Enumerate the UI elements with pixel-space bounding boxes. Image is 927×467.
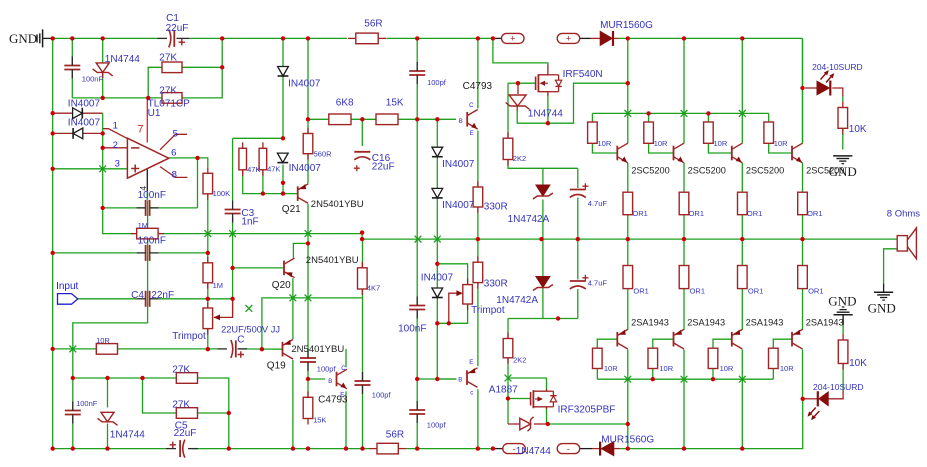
- wire zener D7 hang: [542, 168, 544, 185]
- label 15K: [386, 97, 404, 108]
- wire trimpot2 wiper: [449, 293, 459, 323]
- wire 2K2 top link: [507, 83, 509, 138]
- wire cap ladder C7: [416, 38, 418, 119]
- label 1M R5: [213, 281, 223, 290]
- wire 100nF C2 branch: [71, 38, 73, 98]
- zener diode D1 1N4744: [93, 63, 113, 78]
- label OR1 npn 4: [807, 209, 822, 218]
- svg-text:2N5401YBU: 2N5401YBU: [291, 344, 344, 355]
- svg-text:2SA1943: 2SA1943: [631, 318, 669, 328]
- resistor OR1 npn 2: [679, 192, 689, 215]
- label 27K R17: [172, 399, 190, 410]
- label 6K8: [336, 97, 354, 108]
- wire 27K R17 link: [143, 378, 177, 413]
- label 1N4744 D11: [110, 429, 145, 440]
- label 2SC5200 2: [688, 165, 726, 175]
- connector - left: [503, 444, 526, 454]
- transistor 2SC5200 1: [617, 143, 628, 163]
- wire Q21 collector col: [307, 204, 309, 298]
- svg-text:22uF: 22uF: [166, 23, 189, 34]
- svg-text:10R: 10R: [604, 364, 618, 373]
- resistor 10R pnp 3: [708, 348, 718, 368]
- capacitor C2 100nF: [64, 57, 80, 79]
- svg-text:C4: C4: [131, 290, 144, 301]
- diode D3 IN4007: [73, 108, 83, 119]
- label 2SA1943 1: [631, 318, 669, 328]
- wire gate feed from V+ rail: [493, 38, 548, 64]
- wire A1887 collector: [477, 389, 479, 448]
- wire pnp base lead 1: [597, 339, 617, 348]
- svg-text:IN4007: IN4007: [288, 78, 321, 89]
- pin 3: [115, 158, 120, 169]
- svg-text:1N4742A: 1N4742A: [496, 295, 538, 306]
- svg-text:27K: 27K: [159, 53, 177, 64]
- label 100pf Q19cap: [317, 365, 337, 374]
- label 15K lower: [313, 415, 326, 424]
- label 1M R4: [138, 221, 148, 230]
- led D5 204-10SURD: [805, 70, 834, 95]
- wire pin2 lead: [103, 147, 128, 149]
- zener D11 1N4744: [98, 412, 118, 425]
- label 10R pnp 2: [659, 364, 673, 373]
- wire 100pf C14 col: [416, 239, 418, 449]
- ground GND top-left: [37, 29, 53, 47]
- svg-text:10R: 10R: [714, 139, 728, 148]
- capacitor C6 100nF: [137, 245, 159, 261]
- svg-text:56R: 56R: [364, 18, 382, 29]
- pin C upper: [469, 103, 474, 109]
- label 1N4742A D7: [508, 214, 550, 225]
- label 10R input: [96, 336, 110, 345]
- svg-text:OR1: OR1: [808, 286, 823, 295]
- wire Q19 cap branch: [307, 356, 309, 364]
- transistor 2SA1943 1: [617, 329, 628, 349]
- wire OR1 to bus 3: [741, 215, 743, 239]
- resistor 2K2 upper: [503, 132, 513, 165]
- transistor A1887: [467, 368, 478, 388]
- wire diode D3 row: [53, 112, 103, 114]
- resistor R3 27K: [162, 93, 182, 104]
- label OR1 pnp 3: [748, 286, 763, 295]
- wire cap ladder mid: [416, 119, 418, 238]
- wire pin4 descender: [73, 200, 148, 349]
- svg-text:100nF: 100nF: [138, 190, 166, 201]
- op-amp U1 TL071CP: [127, 138, 168, 178]
- svg-text:10R: 10R: [720, 364, 734, 373]
- label Q20: [272, 280, 291, 291]
- label 4.7uF C8: [588, 199, 608, 208]
- svg-text:B: B: [328, 379, 332, 385]
- label OR1 npn 3: [747, 209, 762, 218]
- speaker 8 Ohms: [897, 228, 916, 259]
- svg-text:2K2: 2K2: [513, 154, 526, 163]
- svg-text:27K: 27K: [172, 364, 190, 375]
- label U1: [148, 108, 161, 119]
- svg-text:10R: 10R: [774, 139, 788, 148]
- wire input line: [78, 298, 137, 300]
- resistor OR1 npn 3: [738, 192, 748, 215]
- label 10R pnp 4: [780, 364, 794, 373]
- wire 100nF C6 row: [53, 252, 208, 254]
- wire pnp base rail: [597, 378, 773, 380]
- resistor 10R npn 3: [704, 122, 714, 143]
- zener D7 1N4742A: [533, 185, 553, 199]
- svg-text:OR1: OR1: [632, 209, 647, 218]
- transistor 2SA1943 2: [674, 329, 685, 349]
- wire 10R to base 4: [769, 143, 792, 153]
- label Q21: [282, 204, 301, 215]
- label 27K R2: [159, 53, 177, 64]
- resistor 27K R17: [176, 408, 197, 419]
- label 22UF/500V JJ: [221, 325, 280, 335]
- svg-text:2SC5200: 2SC5200: [746, 165, 784, 175]
- resistor 10R npn 2: [644, 122, 654, 143]
- pin B A1887: [458, 378, 462, 384]
- label 56R top: [364, 18, 382, 29]
- wire 27K R17 right: [198, 412, 229, 414]
- wire 10R bottom lead pnp 4: [772, 369, 774, 380]
- wire Q19 collector drop: [292, 360, 294, 449]
- capacitor 100pf C14: [409, 401, 425, 423]
- svg-text:100nF: 100nF: [138, 236, 166, 247]
- diode D4 IN4007: [73, 128, 83, 139]
- ground GND right lower: [834, 307, 853, 325]
- wire 2SA1 col to rail: [627, 424, 629, 449]
- label 100nF C2: [82, 74, 104, 83]
- svg-text:5: 5: [173, 128, 178, 139]
- wire 4K7 return: [262, 298, 362, 349]
- svg-text:1N4744: 1N4744: [528, 108, 563, 119]
- wire 10R to base 2: [649, 143, 674, 153]
- svg-text:1N4742A: 1N4742A: [508, 214, 550, 225]
- wire OR1 to bus 1: [627, 215, 629, 239]
- label 10K upper: [849, 124, 867, 135]
- wire trimpot2 bottom: [437, 304, 467, 323]
- zener D13 1N4742A: [533, 277, 553, 291]
- label 100nF C11: [76, 399, 98, 408]
- pin E lower: [340, 393, 344, 399]
- diode MUR1560G top: [496, 31, 619, 46]
- wire 10R to base 1: [592, 143, 617, 153]
- svg-text:GND: GND: [868, 301, 896, 316]
- svg-text:10R: 10R: [96, 336, 110, 345]
- wire npn base rail: [592, 112, 768, 114]
- label 56R bottom: [386, 429, 404, 440]
- wire 560R drop: [307, 119, 309, 133]
- resistor 10R input: [96, 344, 117, 355]
- wire OR1 to bus 2: [683, 215, 685, 239]
- transistor 2SC5200 2: [674, 143, 685, 163]
- label 100nF C6: [138, 236, 166, 247]
- svg-text:1M: 1M: [138, 221, 148, 230]
- label 8 Ohms: [887, 209, 921, 220]
- label 2SA1943 3: [746, 318, 784, 328]
- wire bottom rail: [53, 399, 803, 449]
- capacitor 100pf Q19: [300, 349, 316, 371]
- wire gate2 zener drop: [507, 399, 509, 425]
- label OR1 pnp 4: [808, 286, 823, 295]
- label 27K R16: [172, 364, 190, 375]
- svg-text:2N5401YBU: 2N5401YBU: [311, 199, 364, 210]
- svg-text:C: C: [469, 103, 474, 109]
- svg-text:6: 6: [171, 147, 176, 158]
- svg-text:22UF/500V JJ: 22UF/500V JJ: [221, 325, 280, 335]
- wire IN4007 pair lower: [436, 198, 438, 264]
- label C3: [241, 208, 254, 219]
- label IN4007 D3: [68, 98, 101, 109]
- op-amp pin1 stub: [103, 129, 127, 139]
- wire bus to OR1 pnp 2: [683, 239, 685, 265]
- label 2N5401YBU Q19: [291, 344, 344, 355]
- resistor 6K8: [329, 114, 351, 125]
- connector + right: [557, 33, 580, 43]
- label 22uF C16: [372, 162, 395, 173]
- diode D10 IN4007: [432, 288, 443, 298]
- wire npn emitter col 2: [683, 163, 685, 192]
- wire gate2 row: [508, 398, 530, 400]
- wire left vertical bus: [52, 38, 54, 448]
- wire bottom feedback rail: [53, 348, 218, 350]
- label IN4007 D4: [68, 117, 101, 128]
- wire 6K8 rail: [308, 118, 456, 120]
- wire C3 to input node: [232, 218, 234, 318]
- wire OR1 to bus 4: [802, 215, 804, 239]
- svg-text:4.7uF: 4.7uF: [588, 278, 608, 287]
- resistor 10K lower: [838, 334, 848, 370]
- svg-text:22uF: 22uF: [372, 162, 395, 173]
- wire pnp base lead 4: [773, 339, 792, 348]
- svg-text:560R: 560R: [314, 150, 333, 159]
- wire Q21 col to cap: [307, 298, 309, 356]
- svg-text:8 Ohms: 8 Ohms: [887, 209, 921, 220]
- wire 10R to base 3: [708, 143, 731, 153]
- label 4.7uF C9: [588, 278, 608, 287]
- resistor 15K lower: [303, 391, 313, 424]
- resistor 10R npn 1: [588, 122, 598, 143]
- label 4K7: [367, 283, 380, 292]
- svg-text:100nF: 100nF: [398, 324, 426, 335]
- wire C16 branch: [361, 119, 363, 146]
- led D14 204-10SURD: [808, 391, 829, 420]
- svg-text:OR1: OR1: [633, 286, 648, 295]
- svg-text:E: E: [469, 360, 473, 366]
- wire node A horizontal: [72, 97, 162, 99]
- input connector: [58, 294, 78, 305]
- wire 2K2 bottom bend: [508, 160, 578, 169]
- diode D8 IN4007: [432, 147, 443, 157]
- capacitor 100pf C13: [355, 372, 371, 394]
- svg-text:204-10SURD: 204-10SURD: [813, 382, 864, 392]
- wire npn collector col 1: [627, 83, 629, 143]
- wire 10R bottom lead pnp 1: [596, 369, 598, 380]
- label 100nF C5: [138, 190, 166, 201]
- wire pin3 feed: [53, 168, 128, 170]
- svg-text:1N4744: 1N4744: [105, 54, 140, 65]
- svg-text:10R: 10R: [654, 139, 668, 148]
- svg-text:2SC5200: 2SC5200: [631, 165, 669, 175]
- resistor 56R top: [348, 33, 386, 44]
- wire LED2 lead: [803, 398, 818, 400]
- svg-text:GND: GND: [9, 31, 37, 46]
- wire speaker gnd: [884, 249, 898, 283]
- label 10R npn 4: [774, 139, 788, 148]
- label OR1 npn 1: [632, 209, 647, 218]
- resistor 15K: [376, 114, 398, 125]
- svg-text:100nF: 100nF: [76, 399, 98, 408]
- svg-text:100K: 100K: [213, 189, 231, 198]
- label 10K lower: [849, 358, 867, 369]
- label 10R pnp 1: [604, 364, 618, 373]
- wire 10K2 to LED2: [828, 364, 843, 399]
- wire input to divider: [159, 298, 233, 300]
- transistor 2SA1943 4: [792, 329, 803, 349]
- wire D2 to 47K rail: [282, 76, 284, 138]
- transistor Q20 2N5401YBU: [284, 258, 295, 278]
- svg-text:100pf: 100pf: [427, 420, 447, 429]
- label 47K left: [247, 165, 260, 174]
- svg-text:27K: 27K: [172, 399, 190, 410]
- wire 27K feedback link: [148, 67, 162, 98]
- svg-text:3: 3: [115, 158, 120, 169]
- label IRF540N: [563, 69, 603, 80]
- ground GND speaker: [874, 292, 893, 300]
- label 100pf C7: [427, 78, 447, 87]
- label GND speaker: [868, 301, 896, 316]
- wire npn collector col 4: [802, 38, 804, 143]
- svg-text:IRF3205PBF: IRF3205PBF: [558, 404, 616, 415]
- resistor 560R: [303, 128, 313, 160]
- wire zener D11 branch: [107, 378, 109, 408]
- label 204-10SURD bottom: [813, 382, 864, 392]
- wire Q21 emitter: [307, 154, 309, 184]
- label 22uF C10: [174, 428, 197, 439]
- label 1nF: [241, 217, 258, 228]
- svg-text:Trimpot: Trimpot: [172, 331, 206, 342]
- label 1N4744 D1: [105, 54, 140, 65]
- transistor Q19 2N5401YBU: [283, 339, 294, 359]
- wire npn emitter col 3: [741, 163, 743, 192]
- svg-text:2SA1943: 2SA1943: [746, 318, 784, 328]
- wire 100K column: [207, 194, 209, 349]
- svg-text:IRF540N: IRF540N: [563, 69, 603, 80]
- svg-text:C: C: [237, 335, 244, 346]
- capacitor C4 22nF: [137, 291, 159, 307]
- capacitor C 22UF/500V: [218, 340, 248, 358]
- resistor OR1 pnp 3: [738, 266, 748, 289]
- wire mosfet2 source drop: [546, 407, 548, 424]
- label IRF3205PBF: [558, 404, 616, 415]
- svg-text:B: B: [459, 119, 463, 125]
- svg-text:A1887: A1887: [489, 384, 518, 395]
- wire Q20 collector link: [293, 243, 308, 258]
- label C1 value: [166, 23, 189, 34]
- resistor 10R pnp 2: [648, 348, 658, 368]
- pin c lower: [341, 366, 346, 372]
- label 1N4744 D6: [528, 108, 563, 119]
- svg-text:E: E: [470, 131, 474, 137]
- label 27K R3: [159, 85, 177, 96]
- pin 2: [113, 140, 118, 151]
- wire OR1 to emitter pnp 4: [802, 289, 804, 330]
- svg-text:100nF: 100nF: [82, 74, 104, 83]
- svg-text:2SC5200: 2SC5200: [688, 165, 726, 175]
- svg-text:2N5401YBU: 2N5401YBU: [306, 255, 359, 266]
- label 204-10SURD top: [812, 62, 863, 72]
- wire 2K2b to X: [507, 358, 509, 378]
- svg-text:10K: 10K: [849, 124, 867, 135]
- wire pnp collector col 1: [627, 350, 629, 425]
- diode D2a IN4007: [278, 67, 289, 77]
- wire pnp collector col 2: [683, 350, 685, 449]
- wire LED1 down: [802, 88, 804, 143]
- label 2K2 upper: [513, 154, 526, 163]
- wire speaker gnd black: [883, 283, 885, 292]
- transistor 2SA1943 3: [732, 329, 743, 349]
- svg-text:IN4007: IN4007: [68, 98, 101, 109]
- pin E A1887: [469, 360, 473, 366]
- label 10R npn 2: [654, 139, 668, 148]
- label C cap: [237, 335, 244, 346]
- wire 10R top lead 3: [707, 113, 709, 122]
- wire mosfet2 drain link: [508, 378, 547, 390]
- transistor 2SC5200 3: [732, 143, 743, 163]
- resistor 27K R16: [176, 373, 197, 384]
- svg-text:15K: 15K: [386, 97, 404, 108]
- pin E upper: [470, 131, 474, 137]
- label C5 cap: [175, 420, 188, 431]
- transistor C4793 upper: [467, 110, 478, 130]
- svg-text:IN4007: IN4007: [68, 117, 101, 128]
- wire bus to OR1 pnp 3: [741, 239, 743, 265]
- wire bus to OR1 pnp 4: [802, 239, 804, 265]
- wire Q20 base: [233, 267, 284, 269]
- wire OR1 to emitter pnp 2: [683, 289, 685, 330]
- resistor OR1 pnp 1: [623, 266, 633, 289]
- svg-text:OR1: OR1: [689, 209, 704, 218]
- wire npn collector col 3: [741, 38, 743, 143]
- label GND top-left: [9, 31, 37, 46]
- wire IN4007 pair branch: [436, 119, 438, 147]
- resistor 10R npn 4: [764, 122, 774, 143]
- pin 6: [171, 147, 176, 158]
- capacitor C10 22uF: [166, 440, 198, 458]
- resistor 1M vertical: [203, 257, 213, 289]
- capacitor C9 4.7uF: [570, 275, 589, 289]
- svg-text:MUR1560G: MUR1560G: [601, 434, 654, 445]
- wire 330R chain: [477, 131, 479, 367]
- label IN4007 D8: [442, 159, 475, 170]
- resistor 330R lower: [473, 256, 483, 288]
- pin B upper: [459, 119, 463, 125]
- wire pin6 up link: [197, 158, 199, 208]
- wire IN4007 D10 col: [436, 264, 438, 379]
- label C16: [372, 153, 391, 164]
- svg-text:OR1: OR1: [747, 209, 762, 218]
- label MUR1560G bottom: [601, 434, 654, 445]
- wire source2 row: [548, 423, 628, 425]
- wire pnp base lead 3: [713, 339, 732, 348]
- op-amp pin5 stub: [160, 134, 187, 150]
- wire mid rail: [103, 208, 362, 234]
- label 10R npn 3: [714, 139, 728, 148]
- svg-text:10R: 10R: [780, 364, 794, 373]
- label OR1 npn 2: [689, 209, 704, 218]
- label Trimpot 1: [172, 331, 206, 342]
- wire zener D6 hang: [517, 83, 519, 94]
- svg-text:+: +: [510, 34, 515, 44]
- wire output bus: [362, 233, 897, 240]
- pin 5: [173, 128, 178, 139]
